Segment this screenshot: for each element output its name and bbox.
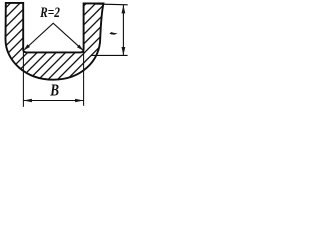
B arrowhead left xyxy=(24,99,32,102)
svg-text:B: B xyxy=(49,81,59,100)
extension line t top xyxy=(96,3,128,6)
leader lines R=2 (V shape) xyxy=(25,23,83,50)
leader arrowhead right xyxy=(77,45,83,51)
dimension line B xyxy=(23,100,83,102)
B arrowhead right xyxy=(75,99,83,102)
t arrowhead bottom xyxy=(122,47,126,55)
extension line t bottom xyxy=(92,54,128,56)
svg-text:R=2: R=2 xyxy=(39,5,60,21)
leader arrowhead left xyxy=(24,44,30,50)
extension line B left xyxy=(22,51,24,107)
label t xyxy=(110,32,118,35)
dimension line t xyxy=(122,5,124,55)
groove cross-section material (hatched U-shape with round bottom) xyxy=(6,3,104,80)
t arrowhead top xyxy=(122,5,126,13)
extension line B right xyxy=(83,51,85,106)
